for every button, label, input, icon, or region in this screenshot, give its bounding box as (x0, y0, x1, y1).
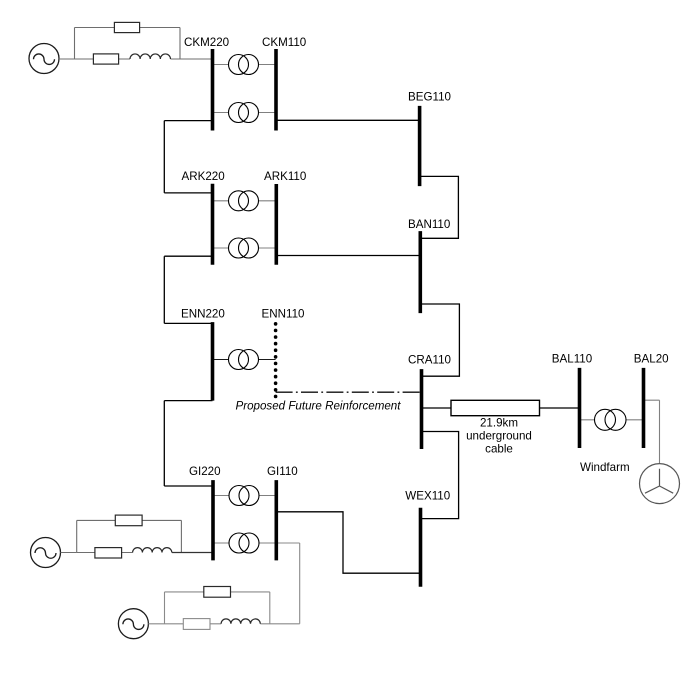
svg-text:Windfarm: Windfarm (580, 461, 630, 474)
svg-text:CKM110: CKM110 (262, 36, 306, 49)
svg-text:GI110: GI110 (267, 465, 298, 478)
svg-text:cable: cable (485, 442, 513, 455)
svg-text:ENN220: ENN220 (181, 308, 225, 321)
svg-text:BAL20: BAL20 (634, 353, 669, 366)
svg-text:underground: underground (466, 429, 532, 442)
svg-text:CRA110: CRA110 (408, 354, 451, 367)
svg-text:ARK220: ARK220 (182, 170, 225, 183)
svg-text:Proposed Future Reinforcement: Proposed Future Reinforcement (236, 399, 402, 412)
svg-text:ARK110: ARK110 (264, 170, 306, 183)
svg-text:WEX110: WEX110 (405, 490, 450, 503)
svg-text:ENN110: ENN110 (262, 308, 305, 321)
svg-text:BAN110: BAN110 (408, 218, 450, 231)
svg-text:BAL110: BAL110 (552, 353, 592, 366)
svg-text:CKM220: CKM220 (184, 36, 229, 49)
svg-text:21.9km: 21.9km (480, 416, 518, 429)
svg-text:GI220: GI220 (189, 465, 221, 478)
svg-text:BEG110: BEG110 (408, 91, 451, 104)
